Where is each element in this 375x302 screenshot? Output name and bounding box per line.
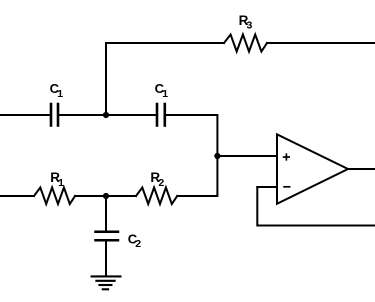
ground <box>92 276 121 289</box>
wire: C1a to node A <box>59 114 106 116</box>
wire: node A riser to R3 branch <box>106 43 224 115</box>
wire: node B down to R2 wire <box>177 156 217 196</box>
wire: node C down to capacitor C2 <box>105 196 107 231</box>
wire: op-amp output to right edge <box>348 168 375 170</box>
wire: C2 to ground <box>105 241 107 276</box>
node A junction <box>103 112 109 118</box>
wire: op-amp - input <box>257 186 277 188</box>
op-amp + input marker <box>284 154 290 160</box>
wire: node C to R2 <box>106 195 136 197</box>
resistor R1 <box>34 188 75 205</box>
resistor R2 <box>136 188 177 205</box>
wire: left input to R1 <box>0 195 34 197</box>
op-amp U1 <box>277 134 348 204</box>
wire: left input to capacitor C1a <box>0 114 50 116</box>
wire: R3 to right edge (output net) <box>267 42 375 44</box>
capacitor C2 <box>96 232 119 241</box>
wire: C1b to corner into node B <box>166 115 217 156</box>
node C junction <box>103 193 109 199</box>
wire: node A to capacitor C1b <box>106 114 156 116</box>
capacitor C1 (right) <box>157 104 165 126</box>
wire: R1 to node C <box>75 195 106 197</box>
capacitor C1 (left) <box>51 104 58 126</box>
wire: node B to op-amp + input <box>217 155 277 157</box>
wire: feedback drop from - input <box>257 187 375 226</box>
node B junction <box>214 153 220 159</box>
resistor R3 <box>224 35 267 52</box>
op-amp - input marker <box>284 186 290 188</box>
